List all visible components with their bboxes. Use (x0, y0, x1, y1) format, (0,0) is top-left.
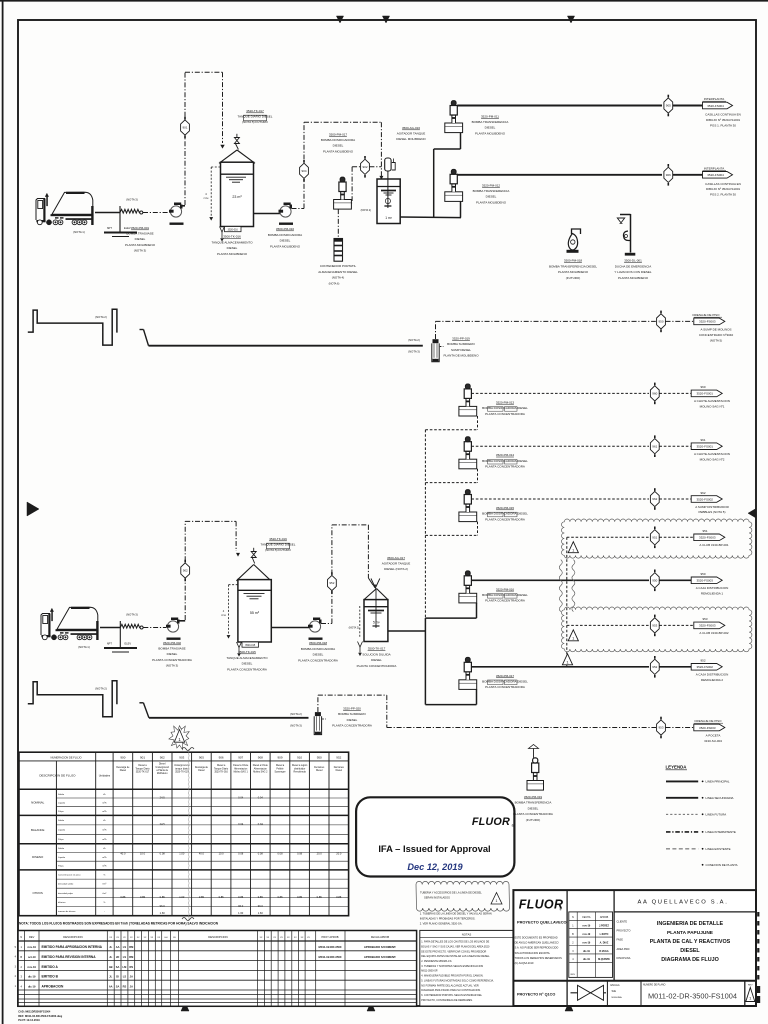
svg-text:Diesel: Diesel (336, 770, 343, 772)
svg-text:nov-19: nov-19 (583, 941, 591, 944)
svg-text:PLANTA CONCENTRADORA: PLANTA CONCENTRADORA (357, 664, 397, 668)
svg-text:B: B (20, 955, 22, 959)
svg-text:BOMBA TRANSFERENCIA: BOMBA TRANSFERENCIA (515, 801, 552, 805)
svg-text:961: 961 (652, 444, 657, 448)
svg-text:REV: REV (571, 974, 576, 976)
svg-text:Underground a: Underground a (174, 764, 190, 767)
svg-text:distribuidor: distribuidor (294, 767, 305, 770)
svg-text:3500-DL-001: 3500-DL-001 (624, 259, 642, 263)
svg-text:24.5: 24.5 (160, 796, 166, 800)
svg-text:DIESEL: DIESEL (333, 144, 344, 148)
svg-text:910: 910 (297, 756, 302, 760)
svg-text:3500-AG-016: 3500-AG-016 (402, 126, 420, 130)
svg-text:LM: LM (123, 965, 127, 969)
svg-text:3520-015: 3520-015 (245, 644, 256, 647)
svg-text:3520-TK-017: 3520-TK-017 (136, 772, 150, 774)
svg-text:Molibdeno: Molibdeno (157, 773, 168, 775)
svg-text:952: 952 (700, 659, 705, 663)
svg-text:1 m³: 1 m³ (385, 216, 392, 220)
svg-text:LINEA FUTURA: LINEA FUTURA (706, 813, 727, 817)
svg-text:CONEXION DE PLANTA: CONEXION DE PLANTA (706, 863, 738, 867)
svg-text:DIAGRAMA 3520-FS1001 PARA SU C: DIAGRAMA 3520-FS1001 PARA SU CONTINUACIO… (421, 989, 481, 992)
svg-text:EMITIDO A: EMITIDO A (42, 965, 59, 969)
svg-text:906: 906 (219, 756, 224, 760)
svg-text:3520-PM-012: 3520-PM-012 (482, 184, 501, 188)
svg-text:(NOTA 3): (NOTA 3) (408, 349, 420, 353)
svg-text:950: 950 (317, 756, 322, 760)
svg-text:!: ! (181, 728, 182, 732)
svg-text:NUMERACION DE FLUJO: NUMERACION DE FLUJO (51, 755, 82, 759)
svg-text:BOMBA TRANSFERENCIA: BOMBA TRANSFERENCIA (472, 120, 509, 124)
svg-text:Pulpa: Pulpa (58, 866, 64, 868)
svg-text:Tanque Diario: Tanque Diario (214, 767, 229, 770)
svg-text:BALANCE: BALANCE (31, 828, 45, 832)
svg-text:1.60: 1.60 (258, 911, 264, 915)
svg-text:JL: JL (109, 955, 112, 959)
svg-text:Diesel a Chute: Diesel a Chute (233, 764, 249, 767)
svg-text:902: 902 (160, 756, 165, 760)
svg-text:A CLUB 3130-BP-002: A CLUB 3130-BP-002 (699, 631, 729, 635)
svg-text:MOLINO SAG Nº2: MOLINO SAG Nº2 (700, 457, 725, 461)
svg-text:ALMACENAMIENTO DIESEL: ALMACENAMIENTO DIESEL (318, 270, 358, 274)
svg-text:NUMERO DE PLANO: NUMERO DE PLANO (643, 984, 666, 987)
svg-text:PLANTA CONCENTRADORA: PLANTA CONCENTRADORA (227, 667, 267, 671)
svg-text:0.85: 0.85 (277, 895, 283, 899)
svg-text:3500-TK-017: 3500-TK-017 (368, 647, 386, 651)
svg-text:3520-FS003: 3520-FS003 (696, 579, 713, 583)
svg-text:nov-19: nov-19 (28, 965, 37, 969)
svg-text:3520-FS002: 3520-FS002 (696, 497, 713, 501)
svg-text:IFA – Issued for Approval: IFA – Issued for Approval (378, 843, 490, 854)
svg-text:dic-19: dic-19 (28, 975, 36, 979)
svg-text:2. VER PLANO GENERAL 3520-GA.: 2. VER PLANO GENERAL 3520-GA. (420, 922, 463, 926)
svg-text:A CHUTE ALIMENTACION: A CHUTE ALIMENTACION (694, 452, 730, 456)
svg-text:A POCETA: A POCETA (706, 734, 721, 738)
svg-text:DUCHA DE EMERGENCIA: DUCHA DE EMERGENCIA (615, 264, 652, 268)
svg-text:OTROS: OTROS (33, 891, 43, 895)
svg-text:Diesel: Diesel (120, 770, 127, 772)
svg-text:DESCRIPCION DE FLUJO: DESCRIPCION DE FLUJO (39, 774, 76, 778)
svg-text:®: ® (559, 908, 562, 912)
svg-text:DIESEL: DIESEL (347, 718, 358, 722)
svg-text:LS: LS (123, 955, 127, 959)
svg-text:907: 907 (238, 756, 243, 760)
svg-text:CONCENTRADO Nº3040: CONCENTRADO Nº3040 (699, 333, 734, 337)
svg-text:DIAGRAMA DE FLUJO: DIAGRAMA DE FLUJO (661, 957, 719, 963)
svg-text:(NOTA 3): (NOTA 3) (166, 663, 178, 667)
svg-text:APROBADO S/COMENT.: APROBADO S/COMENT. (364, 955, 397, 959)
svg-text:20.0: 20.0 (317, 852, 323, 856)
svg-text:BOMBA DOSIFICADORA: BOMBA DOSIFICADORA (268, 233, 302, 237)
svg-text:nov-19: nov-19 (28, 945, 37, 949)
svg-text:Scavenger: Scavenger (275, 771, 286, 774)
svg-text:densidad solido: densidad solido (58, 884, 74, 886)
svg-text:R.VEGA: R.VEGA (599, 950, 608, 953)
svg-text:DIESEL: DIESEL (313, 653, 324, 657)
svg-text:96.0: 96.0 (258, 904, 264, 908)
svg-text:0.08: 0.08 (238, 852, 244, 856)
svg-text:3130-SU-004: 3130-SU-004 (704, 739, 722, 743)
svg-text:BOMBA DOSIFICADORA: BOMBA DOSIFICADORA (301, 647, 335, 651)
svg-text:PEBBLES (NOTA 5): PEBBLES (NOTA 5) (699, 510, 726, 514)
svg-text:953: 953 (702, 617, 707, 621)
svg-text:2. PENDIENTE MINIMA 1%.: 2. PENDIENTE MINIMA 1%. (421, 960, 452, 963)
svg-text:RM: RM (129, 945, 133, 949)
svg-text:55 m³: 55 m³ (250, 611, 260, 615)
svg-text:DIBUJO Nº 3520-FS1001: DIBUJO Nº 3520-FS1001 (706, 118, 740, 122)
svg-text:DEL EQUIPO ANTES DE INSTALAR L: DEL EQUIPO ANTES DE INSTALAR LAS LINEAS … (421, 955, 490, 958)
svg-text:PLANTA CONCENTRADORA: PLANTA CONCENTRADORA (485, 465, 525, 469)
svg-text:Tanque Diario: Tanque Diario (135, 767, 150, 770)
svg-text:902: 902 (183, 569, 188, 573)
svg-text:Molino SAG 1: Molino SAG 1 (234, 771, 249, 774)
svg-text:LINEA EXISTENTE: LINEA EXISTENTE (706, 847, 731, 851)
svg-text:960: 960 (652, 392, 657, 396)
svg-text:tamano de diseno: tamano de diseno (58, 910, 76, 913)
svg-text:3520-FS001: 3520-FS001 (696, 392, 713, 396)
svg-text:0.08: 0.08 (297, 852, 303, 856)
svg-text:N: N (572, 916, 574, 919)
svg-text:LINEA INTERMITENTE: LINEA INTERMITENTE (706, 830, 736, 834)
svg-text:AA: AA (109, 984, 113, 988)
svg-text:AGITADOR TANQUE: AGITADOR TANQUE (397, 132, 426, 136)
svg-text:3520-PM-013: 3520-PM-013 (496, 400, 515, 404)
svg-text:900: 900 (120, 756, 125, 760)
svg-text:3520-PM-019: 3520-PM-019 (524, 795, 543, 799)
svg-text:0.08: 0.08 (258, 852, 264, 856)
svg-text:FECHA: FECHA (582, 916, 591, 919)
svg-text:23 m³: 23 m³ (232, 195, 242, 199)
svg-text:AB: AB (109, 965, 113, 969)
svg-text:JA: JA (130, 984, 133, 988)
svg-text:3500-PM-018: 3500-PM-018 (564, 259, 583, 263)
svg-text:1: 1 (496, 899, 498, 903)
svg-text:3520-TK-016: 3520-TK-016 (214, 772, 228, 774)
svg-text:JD: JD (116, 955, 119, 959)
svg-text:Pulpa: Pulpa (58, 811, 64, 813)
svg-text:NOTA: TODOS LOS FLUJOS MOSTRAD: NOTA: TODOS LOS FLUJOS MOSTRADOS SON EXP… (19, 922, 219, 926)
svg-text:DESCRIPCION: DESCRIPCION (63, 935, 82, 939)
svg-text:PGS 1. PLANTA 30: PGS 1. PLANTA 30 (710, 123, 736, 127)
svg-text:0.04: 0.04 (238, 822, 244, 826)
svg-text:(NOTA 3): (NOTA 3) (126, 198, 138, 202)
svg-text:Descarga de: Descarga de (116, 766, 130, 769)
svg-text:Concentracion en peso: Concentracion en peso (58, 874, 81, 877)
svg-text:10.0: 10.0 (140, 852, 146, 856)
svg-text:TANQUE ALMACENAMIENTO: TANQUE ALMACENAMIENTO (211, 240, 253, 244)
svg-text:DIESEL: DIESEL (486, 195, 497, 199)
svg-text:PLANTA CONCENTRADORA: PLANTA CONCENTRADORA (298, 658, 338, 662)
svg-text:PROYECTO: PROYECTO (617, 930, 631, 933)
svg-text:20.0: 20.0 (336, 852, 342, 856)
svg-text:Diesel: Diesel (316, 770, 323, 772)
svg-text:3520-FS003: 3520-FS003 (699, 320, 716, 324)
svg-text:EMITIDO PARA REVISION INTERNA: EMITIDO PARA REVISION INTERNA (42, 955, 97, 959)
svg-text:PLANTA CONCENTRADORA: PLANTA CONCENTRADORA (485, 517, 525, 521)
svg-text:REMOLIENDA 2: REMOLIENDA 2 (701, 678, 724, 682)
svg-text:BOMBA TRANSFERENCIA: BOMBA TRANSFERENCIA (473, 189, 510, 193)
svg-text:3520-PP-019: 3520-PP-019 (452, 337, 470, 341)
svg-text:CONTENEDOR PORTATIL: CONTENEDOR PORTATIL (320, 264, 357, 268)
svg-text:96.0: 96.0 (160, 904, 166, 908)
svg-text:0.85: 0.85 (238, 895, 244, 899)
svg-text:A SUMP DE MOLINOS: A SUMP DE MOLINOS (701, 328, 732, 332)
svg-text:JL: JL (109, 975, 112, 979)
svg-text:Pebble: Pebble (276, 768, 284, 770)
svg-text:960: 960 (700, 385, 705, 389)
svg-text:Y LAVAOJOS CON DIESEL: Y LAVAOJOS CON DIESEL (614, 270, 652, 274)
svg-text:5. LINEAS FUTURAS MOSTRADAS S: 5. LINEAS FUTURAS MOSTRADAS SOLO COMO RE… (421, 979, 494, 982)
svg-text:SIN AUTORIZACION ESCRITA.: SIN AUTORIZACION ESCRITA. (515, 952, 551, 955)
svg-text:%: % (103, 902, 105, 904)
svg-text:(FUTURO): (FUTURO) (526, 818, 541, 822)
svg-text:Diesel: Diesel (198, 770, 205, 772)
svg-text:Descarga de: Descarga de (195, 766, 209, 769)
svg-text:Molino SAG 2: Molino SAG 2 (253, 771, 268, 774)
svg-text:Remolienda: Remolienda (293, 772, 306, 774)
svg-text:BOMBA TRASVASE: BOMBA TRASVASE (158, 647, 185, 651)
svg-text:Diesel: Diesel (159, 764, 166, 766)
svg-text:EMITIDO B: EMITIDO B (42, 975, 59, 979)
svg-text:951: 951 (702, 529, 707, 533)
svg-text:CAD: M011DR3500FS1004: CAD: M011DR3500FS1004 (18, 1010, 51, 1014)
svg-text:950: 950 (658, 320, 663, 324)
svg-text:dic-19: dic-19 (583, 958, 591, 961)
svg-text:BOLAS Y SAG Y SUS CAJAS, VER P: BOLAS Y SAG Y SUS CAJAS, VER PLANOS DEL … (421, 946, 490, 949)
svg-text:ELEV: ELEV (124, 226, 131, 230)
svg-text:(NOTA 3): (NOTA 3) (126, 613, 138, 617)
svg-text:JA: JA (130, 975, 133, 979)
svg-text:PPM: PPM (204, 198, 209, 200)
svg-text:Liquido: Liquido (58, 830, 66, 832)
svg-text:DIESEL: DIESEL (227, 246, 238, 250)
svg-text:0.08: 0.08 (160, 852, 166, 856)
svg-text:S/E: S/E (612, 989, 617, 993)
svg-text:M011-02-DR-3500-FS1004: M011-02-DR-3500-FS1004 (648, 991, 737, 1000)
svg-text:(NOTA 2): (NOTA 2) (95, 315, 107, 319)
svg-text:(NOTA 2): (NOTA 2) (290, 712, 302, 716)
svg-text:DE ESTE PROYECTO. VERIFICAR CO: DE ESTE PROYECTO. VERIFICAR CON EL PROVE… (421, 950, 486, 953)
svg-text:DIBUJO Nº 3520-FS1001: DIBUJO Nº 3520-FS1001 (706, 187, 740, 191)
svg-text:952: 952 (652, 665, 657, 669)
svg-text:TANQUE ALMACENAMIENTO: TANQUE ALMACENAMIENTO (226, 656, 268, 660)
svg-text:(NOTA 1): (NOTA 1) (73, 230, 85, 234)
svg-text:REV: REV (748, 985, 753, 987)
svg-text:NINGUNA: NINGUNA (612, 996, 623, 999)
svg-text:FECHA APROB: FECHA APROB (371, 935, 390, 939)
svg-text:950: 950 (700, 572, 705, 576)
svg-text:1.60: 1.60 (238, 911, 244, 915)
svg-text:0.85: 0.85 (199, 895, 205, 899)
svg-text:dic-19: dic-19 (28, 984, 36, 988)
svg-text:INTERPLANTA: INTERPLANTA (704, 167, 724, 171)
svg-text:(NOTA 6): (NOTA 6) (329, 282, 340, 286)
svg-text:3520-FS004: 3520-FS004 (707, 173, 724, 177)
svg-text:3520-PM-017: 3520-PM-017 (496, 674, 515, 678)
svg-text:CASILLAS CONTINUA EN: CASILLAS CONTINUA EN (705, 182, 741, 186)
svg-text:SUMP DIESEL: SUMP DIESEL (451, 348, 471, 352)
svg-text:(NOTA 2): (NOTA 2) (361, 209, 372, 212)
svg-text:NPT: NPT (107, 226, 113, 230)
svg-text:DISCIPLINA: DISCIPLINA (617, 957, 631, 960)
svg-text:908: 908 (258, 756, 263, 760)
svg-text:SOLUCION DILUIDA: SOLUCION DILUIDA (362, 652, 390, 656)
svg-text:Underground: Underground (155, 766, 169, 769)
svg-text:0.85: 0.85 (317, 895, 323, 899)
svg-text:6. CONTENEDOR PORTATIL SEGUN: 6. CONTENEDOR PORTATIL SEGUN ESTANDAR DE… (421, 994, 482, 997)
svg-text:A CLUB 3130-BP-001: A CLUB 3130-BP-001 (699, 543, 729, 547)
svg-text:951: 951 (652, 536, 657, 540)
svg-text:SERAN INSTALADOS: SERAN INSTALADOS (424, 895, 450, 899)
svg-text:3520-PP-020: 3520-PP-020 (343, 707, 361, 711)
svg-text:PROYECTO QUELLAVECO: PROYECTO QUELLAVECO (517, 919, 567, 924)
svg-text:Diesel a Chute: Diesel a Chute (253, 764, 269, 767)
svg-text:0.85: 0.85 (160, 895, 166, 899)
svg-text:BOMBA DOSIFICADORA: BOMBA DOSIFICADORA (321, 138, 355, 142)
svg-text:AREA 3500: AREA 3500 (617, 948, 631, 951)
svg-text:3500-TK-016: 3500-TK-016 (223, 235, 241, 239)
svg-text:REV: REV (29, 935, 35, 939)
svg-text:LINEA SECUNDARIA: LINEA SECUNDARIA (706, 796, 734, 800)
svg-text:3520-TK-019: 3520-TK-019 (269, 537, 287, 541)
svg-text:3520-016: 3520-016 (228, 229, 239, 232)
svg-text:M011-02-DR-3500: M011-02-DR-3500 (318, 955, 341, 959)
svg-text:1.60: 1.60 (160, 911, 166, 915)
svg-text:FASE: FASE (617, 939, 624, 942)
svg-text:J.PEREZ: J.PEREZ (599, 925, 610, 928)
svg-text:PLOT: 12-12-2019: PLOT: 12-12-2019 (18, 1018, 40, 1022)
svg-text:DE ANGLO AMERICAN QUELLAVECO: DE ANGLO AMERICAN QUELLAVECO (515, 942, 559, 945)
svg-text:0.04: 0.04 (258, 822, 264, 826)
svg-text:Derrames: Derrames (314, 766, 325, 769)
svg-text:(NOTA 3): (NOTA 3) (134, 248, 146, 252)
svg-text:PROYECTO N° Q1CO: PROYECTO N° Q1CO (517, 992, 555, 996)
svg-text:901: 901 (140, 756, 145, 760)
svg-text:DISENO: DISENO (32, 855, 44, 859)
svg-text:0.85: 0.85 (219, 895, 225, 899)
svg-text:DIESEL: DIESEL (680, 948, 700, 954)
svg-text:BOMBA TRANSFERENCIA DIESEL: BOMBA TRANSFERENCIA DIESEL (549, 264, 597, 268)
svg-text:3520-PM-015: 3520-PM-015 (496, 506, 515, 510)
svg-text:96.0: 96.0 (238, 904, 244, 908)
svg-text:a Planta de: a Planta de (156, 769, 168, 772)
svg-text:3500-PM-017: 3500-PM-017 (329, 133, 348, 137)
svg-text:BOMBA SUMIDERO: BOMBA SUMIDERO (338, 712, 366, 716)
svg-text:1. TUBERIAS DE LA LINEA DE DIE: 1. TUBERIAS DE LA LINEA DE DIESEL Y VALV… (420, 911, 492, 915)
svg-text:952: 952 (329, 581, 334, 585)
svg-text:NOTAS: NOTAS (462, 932, 472, 936)
svg-text:Solido: Solido (58, 794, 65, 796)
svg-text:RM: RM (129, 955, 133, 959)
svg-text:952: 952 (336, 756, 341, 760)
svg-text:PLANTA MOLIBDENO: PLANTA MOLIBDENO (476, 200, 507, 204)
svg-text:PLANTA MOLIBDENO: PLANTA MOLIBDENO (558, 270, 589, 274)
svg-text:Pulpa: Pulpa (58, 839, 64, 841)
svg-text:INSTALADAS Y PROBADAS POR TERC: INSTALADAS Y PROBADAS POR TERCEROS. (420, 917, 476, 921)
svg-text:PGS 2. PLANTA 30: PGS 2. PLANTA 30 (710, 193, 736, 197)
svg-text:24.5: 24.5 (160, 822, 166, 826)
svg-text:PLANTA MOLIBDENO: PLANTA MOLIBDENO (475, 131, 506, 135)
svg-text:APROB: APROB (600, 916, 609, 919)
svg-text:nov-19: nov-19 (583, 933, 591, 936)
svg-text:L.SOTO: L.SOTO (600, 933, 609, 936)
svg-text:CASILLAS CONTINUA EN: CASILLAS CONTINUA EN (705, 113, 741, 117)
svg-text:PPM: PPM (221, 615, 226, 617)
svg-text:PLANTA CONCENTRADORA: PLANTA CONCENTRADORA (513, 812, 553, 816)
svg-text:Alimentacion: Alimentacion (234, 767, 248, 770)
svg-text:1.00: 1.00 (179, 852, 185, 856)
svg-text:t/m³: t/m³ (103, 892, 107, 895)
svg-text:DIESEL: DIESEL (528, 806, 539, 810)
svg-text:NPT: NPT (107, 642, 113, 646)
svg-text:PLANTA CONCENTRADORA: PLANTA CONCENTRADORA (485, 412, 525, 416)
svg-text:40.0: 40.0 (120, 852, 126, 856)
svg-text:3. TUBERIAS Y SOPORTES SEGUN: 3. TUBERIAS Y SOPORTES SEGUN ESPECIFICAC… (421, 965, 483, 968)
svg-text:DESCRIPCION: DESCRIPCION (208, 935, 227, 939)
svg-text:0.85: 0.85 (297, 895, 303, 899)
svg-text:EMITIDO PARA APROBACION INTERN: EMITIDO PARA APROBACION INTERNA (42, 945, 103, 949)
svg-text:TUBERIA Y ACCESORIOS DE LA LIN: TUBERIA Y ACCESORIOS DE LA LINEA DE DIES… (420, 891, 482, 895)
svg-text:3520-TK-019: 3520-TK-019 (175, 772, 189, 774)
svg-text:Derrames: Derrames (334, 766, 345, 769)
svg-text:PLANTA MOLIBDENO: PLANTA MOLIBDENO (217, 252, 248, 256)
svg-text:dic-19: dic-19 (583, 950, 591, 953)
svg-text:nov-19: nov-19 (583, 925, 591, 928)
svg-text:A SUMP DISTRIBUIDOR: A SUMP DISTRIBUIDOR (695, 505, 729, 509)
svg-text:M011-02-DR-3500: M011-02-DR-3500 (318, 945, 341, 949)
svg-text:A CHUTE ALIMENTACION: A CHUTE ALIMENTACION (694, 399, 730, 403)
svg-text:oct-19: oct-19 (28, 955, 36, 959)
svg-text:3500-AG-017: 3500-AG-017 (387, 556, 405, 560)
svg-text:PLANTA CONCENTRADORA: PLANTA CONCENTRADORA (152, 658, 192, 662)
svg-text:M.QUISPE: M.QUISPE (598, 958, 610, 961)
svg-text:(FUTURO): (FUTURO) (566, 276, 581, 280)
svg-text:FLUOR: FLUOR (519, 898, 564, 912)
svg-text:PLANTA CONCENTRADORA: PLANTA CONCENTRADORA (485, 599, 525, 603)
svg-text:Liquido: Liquido (58, 803, 66, 805)
svg-text:PLANTA MOLIBDENO: PLANTA MOLIBDENO (618, 276, 649, 280)
svg-text:3520-FS003: 3520-FS003 (699, 726, 716, 730)
svg-text:FLUOR: FLUOR (472, 816, 510, 828)
svg-text:953: 953 (658, 726, 663, 730)
svg-text:Solido: Solido (58, 820, 65, 822)
svg-text:Liquido: Liquido (58, 857, 66, 859)
svg-text:MOLINO SAG Nº1: MOLINO SAG Nº1 (700, 405, 725, 409)
svg-text:PLANTA MOLIBDENO: PLANTA MOLIBDENO (125, 243, 156, 247)
svg-text:Unidades: Unidades (99, 774, 111, 778)
svg-text:0.08: 0.08 (277, 852, 283, 856)
svg-text:PROYECTO, CON BANDEJA DE DERRA: PROYECTO, CON BANDEJA DE DERRAMES. (421, 999, 473, 1002)
svg-text:3520-TK-017: 3520-TK-017 (246, 109, 264, 113)
svg-text:N: N (20, 936, 22, 939)
svg-text:3520-FS003: 3520-FS003 (699, 536, 716, 540)
svg-text:BOMBA TRASVASE: BOMBA TRASVASE (126, 232, 153, 236)
svg-text:3520-PM-016: 3520-PM-016 (496, 587, 515, 591)
svg-text:Diesel a: Diesel a (276, 765, 285, 767)
svg-text:RS: RS (123, 984, 127, 988)
svg-text:0.04: 0.04 (238, 796, 244, 800)
svg-text:INTERPLANTA: INTERPLANTA (704, 97, 724, 101)
svg-text:LS: LS (123, 975, 127, 979)
svg-text:DIESEL: DIESEL (485, 126, 496, 130)
svg-text:SA: SA (116, 965, 120, 969)
svg-text:DRENAJE DE PISO: DRENAJE DE PISO (694, 719, 722, 723)
svg-text:APROBADO S/COMENT.: APROBADO S/COMENT. (364, 945, 397, 949)
svg-text:LINEA PRINCIPAL: LINEA PRINCIPAL (706, 780, 730, 784)
svg-text:t/m³: t/m³ (103, 883, 107, 886)
svg-text:Dec 12, 2019: Dec 12, 2019 (407, 862, 463, 872)
svg-text:904: 904 (301, 169, 306, 173)
